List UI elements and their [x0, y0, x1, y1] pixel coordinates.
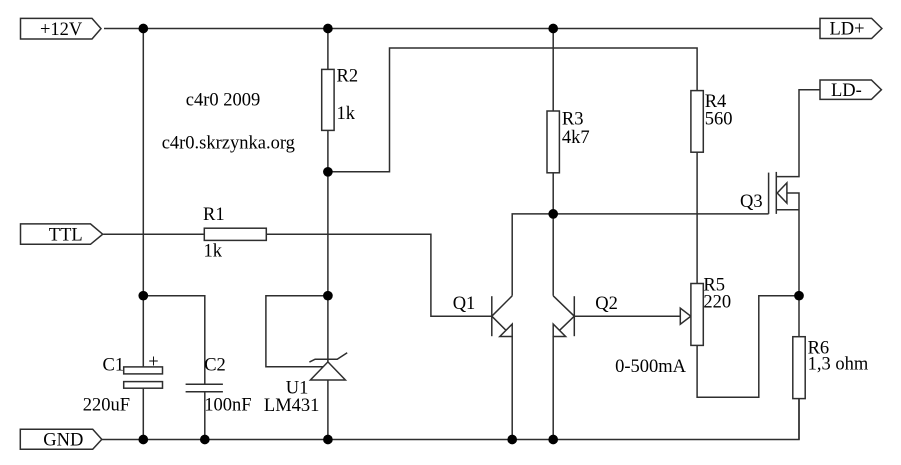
wire R3 vertical: [552, 29, 554, 214]
svg-text:LD+: LD+: [830, 20, 865, 40]
junction R3 bottom gate rail: [548, 209, 558, 219]
wire gate rail Q1 collector to Q3 gate: [512, 214, 768, 296]
resistor R3: [547, 111, 559, 173]
R5 wiper arrow: [680, 308, 691, 324]
resistor R1: [204, 228, 266, 240]
junction R2 bottom: [323, 167, 333, 177]
junction GND at Q1 emitter: [507, 435, 517, 445]
wire TTL to R1: [103, 233, 204, 235]
svg-text:+: +: [148, 353, 158, 373]
svg-text:TTL: TTL: [49, 225, 83, 245]
transistor Q2: [553, 214, 574, 440]
svg-text:1,3 ohm: 1,3 ohm: [808, 355, 869, 375]
port flag TTL: [21, 224, 103, 246]
svg-text:0-500mA: 0-500mA: [615, 357, 687, 377]
wire R2 vertical rail: [327, 29, 329, 440]
svg-text:Q1: Q1: [453, 294, 476, 314]
junction GND at C1: [138, 435, 148, 445]
power flag +12V: [21, 18, 102, 39]
svg-text:220uF: 220uF: [83, 396, 130, 416]
svg-text:1k: 1k: [337, 104, 356, 124]
svg-text:560: 560: [705, 109, 733, 129]
svg-text:Q3: Q3: [740, 192, 763, 212]
port flag LD+: [820, 18, 882, 39]
svg-text:220: 220: [703, 293, 731, 313]
wire R5 bottom to Q3 source node: [697, 296, 799, 398]
mosfet Q3: [769, 90, 820, 296]
wire R4 R5 vertical: [696, 91, 698, 284]
svg-text:100nF: 100nF: [204, 396, 251, 416]
wire R6 leads: [798, 296, 800, 440]
junction GND at C2: [200, 435, 210, 445]
svg-text:c4r0 2009: c4r0 2009: [186, 91, 260, 111]
wire R1 to Q1 base: [266, 234, 491, 316]
junction mid rail at left vertical: [138, 291, 148, 301]
resistor R6: [793, 337, 805, 399]
wire GND rail: [102, 399, 799, 440]
svg-text:R1: R1: [203, 205, 225, 225]
junction mid rail at U1: [323, 291, 333, 301]
junction top rail at left vertical: [138, 24, 148, 34]
svg-text:4k7: 4k7: [562, 128, 590, 148]
svg-text:GND: GND: [43, 430, 83, 450]
capacitor C1: [124, 353, 163, 389]
svg-text:1k: 1k: [204, 242, 223, 262]
svg-text:LD-: LD-: [831, 81, 862, 101]
power flag GND: [20, 429, 102, 450]
svg-text:c4r0.skrzynka.org: c4r0.skrzynka.org: [162, 134, 295, 154]
junction top rail at R3: [548, 24, 558, 34]
svg-text:+12V: +12V: [40, 20, 83, 40]
svg-text:Q2: Q2: [595, 294, 618, 314]
shunt regulator U1: [266, 296, 347, 380]
port flag LD-: [820, 80, 881, 101]
wire mid rail C1 C2: [143, 296, 205, 384]
svg-text:LM431: LM431: [264, 396, 320, 416]
capacitor C2: [186, 384, 223, 439]
svg-text:C2: C2: [204, 356, 226, 376]
junction GND at U1: [323, 435, 333, 445]
svg-text:C1: C1: [103, 356, 125, 376]
junction top rail at R2: [323, 24, 333, 34]
transistor Q1: [492, 296, 512, 440]
wire top +12V rail: [104, 28, 820, 30]
junction Q3 source node: [794, 291, 804, 301]
svg-text:R3: R3: [562, 110, 584, 130]
junction GND at Q2 emitter: [548, 435, 558, 445]
wire left vertical rail: [142, 29, 144, 440]
wire second rail R2 bottom to R4 top: [328, 48, 697, 172]
svg-text:R2: R2: [337, 67, 359, 87]
resistor R2: [322, 69, 334, 130]
resistor R4: [691, 91, 703, 153]
potentiometer R5: [691, 284, 703, 346]
wire Q2 base to R5 wiper: [574, 315, 680, 317]
